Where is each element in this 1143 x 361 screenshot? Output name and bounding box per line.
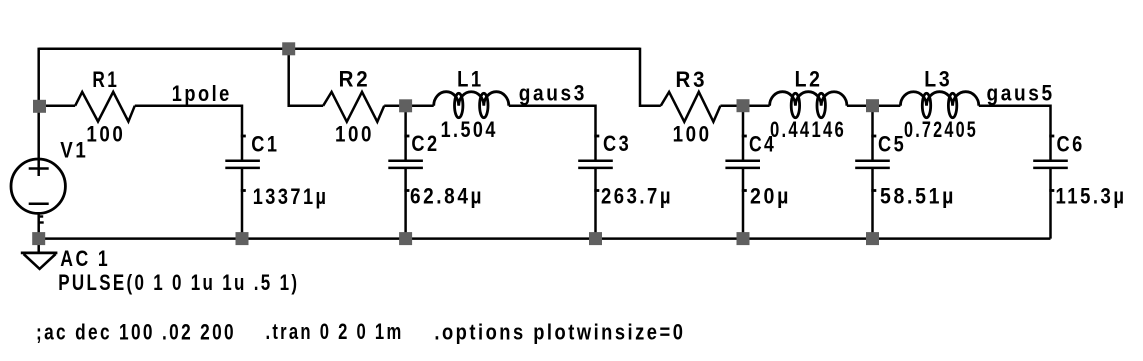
- inductor L1: [434, 92, 509, 106]
- C3 pin ticks: [594, 135, 599, 138]
- svg-text:L3: L3: [924, 67, 952, 92]
- junction node N004 top: [866, 99, 879, 112]
- capacitor C1: [225, 161, 260, 168]
- C2 pin ticks: [404, 135, 409, 138]
- svg-text:13371µ: 13371µ: [253, 184, 329, 209]
- svg-text:C3: C3: [603, 131, 631, 156]
- svg-text:1pole: 1pole: [172, 81, 232, 106]
- junction ground at V1: [32, 232, 45, 245]
- wire top rail: [39, 48, 640, 51]
- svg-text:C1: C1: [251, 131, 279, 156]
- C6 pin ticks: [1049, 135, 1054, 138]
- voltage source V1 circle: [11, 159, 65, 213]
- svg-text:R3: R3: [676, 67, 708, 92]
- V1 minus bar: [29, 203, 49, 206]
- ground symbol: [21, 251, 58, 254]
- svg-text:62.84µ: 62.84µ: [410, 184, 484, 209]
- svg-text:58.51µ: 58.51µ: [880, 184, 956, 209]
- svg-text:115.3µ: 115.3µ: [1056, 184, 1127, 209]
- wire L1 to C3 (node gaus3): [509, 106, 596, 161]
- svg-text:L1: L1: [457, 67, 484, 92]
- wire C4 top: [742, 106, 745, 161]
- junction ground at C1: [236, 232, 249, 245]
- wire C5 top: [871, 106, 874, 161]
- svg-text:gaus5: gaus5: [987, 80, 1055, 105]
- svg-text:1.504: 1.504: [441, 117, 498, 142]
- svg-text:100: 100: [335, 121, 374, 146]
- svg-text:.options plotwinsize=0: .options plotwinsize=0: [434, 320, 685, 345]
- junction node top rail / R2: [282, 42, 295, 55]
- svg-text:0.44146: 0.44146: [770, 117, 846, 142]
- wire top junction drop to R2: [289, 49, 324, 106]
- wire left vertical (top rail to V1 plus): [37, 48, 40, 176]
- C4 pin ticks: [742, 135, 747, 138]
- svg-text:PULSE(0 1 0 1u 1u .5 1): PULSE(0 1 0 1u 1u .5 1): [58, 270, 299, 295]
- wire C5 to bottom rail: [871, 168, 874, 239]
- capacitor C2: [388, 161, 423, 168]
- resistor R2: [323, 92, 384, 122]
- svg-text:gaus3: gaus3: [519, 80, 587, 105]
- svg-text:R1: R1: [92, 67, 119, 92]
- svg-text:C2: C2: [411, 131, 439, 156]
- svg-text:100: 100: [86, 121, 125, 146]
- resistor R3: [661, 92, 721, 122]
- C1 pin ticks: [241, 135, 246, 138]
- svg-text:.tran 0 2 0 1m: .tran 0 2 0 1m: [266, 319, 404, 344]
- wire bottom rail (ground net): [39, 237, 1051, 240]
- wire R3 to node N003: [720, 104, 743, 107]
- svg-text:263.7µ: 263.7µ: [601, 184, 673, 209]
- wire node N001 to R1: [40, 104, 76, 107]
- wire C2 to bottom rail: [404, 168, 407, 239]
- svg-text:AC 1: AC 1: [60, 246, 110, 271]
- wire R1 to C1 (node 1pole): [135, 106, 242, 161]
- wire node N004 to L3: [873, 104, 901, 107]
- svg-text:;ac dec 100 .02 200: ;ac dec 100 .02 200: [36, 320, 236, 345]
- resistor R1: [75, 92, 135, 122]
- V1 pin tick marks: [39, 215, 44, 217]
- junction node V1 top / R1: [33, 100, 46, 113]
- junction node N003 top: [737, 99, 750, 112]
- svg-text:V1: V1: [60, 138, 88, 163]
- junction ground at C5: [866, 232, 879, 245]
- wire L3 to C6 (node gaus5): [979, 106, 1051, 161]
- wire C2 top: [404, 106, 407, 161]
- junction ground at C4: [737, 232, 750, 245]
- wire L2 to node N004: [847, 104, 873, 107]
- wire C3 to bottom rail: [594, 168, 597, 239]
- wire node N003 to L2: [743, 104, 770, 107]
- svg-text:L2: L2: [795, 67, 823, 92]
- wire C1 to bottom rail: [241, 168, 244, 239]
- junction ground at C2: [399, 232, 412, 245]
- svg-text:100: 100: [673, 121, 712, 146]
- V1 plus bar: [29, 167, 49, 170]
- capacitor C4: [725, 161, 760, 168]
- svg-text:R2: R2: [339, 67, 371, 92]
- wire C4 to bottom rail: [742, 168, 745, 239]
- wire top rail right drop to R3: [640, 48, 661, 106]
- capacitor C3: [578, 161, 613, 168]
- wire C6 to bottom rail: [1049, 168, 1052, 239]
- wire V1 bottom to ground junction: [37, 214, 40, 253]
- C5 pin ticks: [871, 135, 876, 138]
- svg-text:C5: C5: [878, 131, 906, 156]
- junction ground at C3: [589, 232, 602, 245]
- svg-text:20µ: 20µ: [750, 184, 791, 209]
- capacitor C5: [855, 161, 890, 168]
- junction node N002 top: [399, 99, 412, 112]
- inductor L2: [770, 92, 847, 106]
- wire node N002 to L1: [406, 104, 434, 107]
- svg-text:0.72405: 0.72405: [904, 117, 978, 142]
- svg-text:C6: C6: [1057, 131, 1085, 156]
- inductor L3: [900, 92, 978, 106]
- capacitor C6: [1033, 161, 1068, 168]
- wire R2 to node N002: [384, 104, 405, 107]
